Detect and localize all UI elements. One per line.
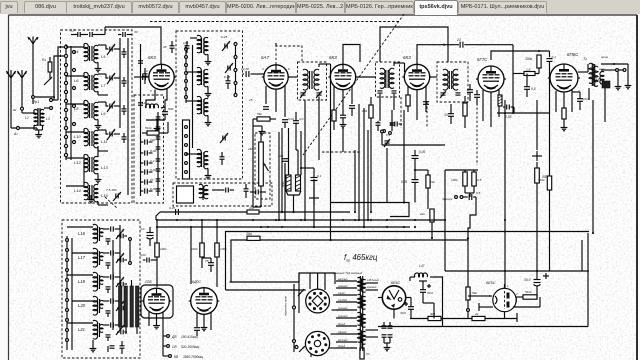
switch contacts box3 right xyxy=(129,238,132,241)
coil L8 xyxy=(84,100,88,117)
capacitor L19 shunt xyxy=(106,286,111,288)
coil L17 small xyxy=(99,253,103,261)
IFT1 trimmer a xyxy=(301,92,306,94)
padder capacitor right y128 xyxy=(156,126,161,128)
resistor 30m on bus xyxy=(247,236,260,240)
svg-text:0,1: 0,1 xyxy=(552,55,557,59)
svg-text:6П6С: 6П6С xyxy=(567,52,579,57)
wire anode 6P6S to T2 xyxy=(578,71,588,73)
IFT2 trimmers xyxy=(378,90,383,92)
coil L16 cathode xyxy=(146,104,159,108)
coil L21 oscillator xyxy=(93,320,98,339)
Tr3 winding right 3 xyxy=(361,314,365,327)
padder capacitor 240 xyxy=(144,139,146,144)
capacitor box2b b xyxy=(244,188,249,190)
wire 6K3-2 top cap run xyxy=(343,45,360,65)
transformer Tr1 core xyxy=(37,108,39,126)
wire L13 bottom xyxy=(97,174,99,178)
riser x505 upper xyxy=(504,100,506,288)
hum coil b xyxy=(296,175,301,191)
tube V2 6A7 converter xyxy=(264,65,288,89)
svg-text:6К3: 6К3 xyxy=(329,55,337,60)
svg-text:150-415кгц: 150-415кгц xyxy=(181,335,198,339)
coil L19 oscillator xyxy=(93,272,98,291)
plus mark 30,0 inset xyxy=(404,303,408,305)
wire y202 mid xyxy=(330,202,390,204)
core L20 xyxy=(201,99,203,114)
wires eye anode xyxy=(516,296,523,298)
wires hum coils xyxy=(288,128,290,175)
capacitor box3 bottom a xyxy=(110,345,115,347)
wires switch loop into inset xyxy=(226,289,306,291)
wire padder second rail xyxy=(157,112,159,196)
resistor 100 on bus y212 xyxy=(247,210,259,214)
terminal DV band xyxy=(167,335,170,338)
page border left xyxy=(8,15,10,360)
core L18 xyxy=(201,38,203,53)
svg-text:А1: А1 xyxy=(13,132,18,136)
wire trimmer row 3 xyxy=(98,101,106,103)
dashed switch line x477 xyxy=(476,103,478,165)
terminal A1 top xyxy=(32,96,35,99)
wire riser x355 xyxy=(354,150,356,212)
tube V9 6E5S socket view xyxy=(382,286,405,309)
wire AVC line right xyxy=(464,44,513,46)
riser x588 outer loop xyxy=(587,233,589,327)
wire antenna W2 down xyxy=(10,86,12,128)
wire pickup feed y170 xyxy=(445,169,478,171)
components below IFT2: capacitor a xyxy=(376,122,381,124)
wire 6A7 anode to IFT1 xyxy=(288,76,297,78)
capacitor L16 shunt xyxy=(106,238,111,240)
capacitor L21 third xyxy=(120,330,122,335)
capacitor box3 bottom b xyxy=(120,345,125,347)
wire 6K3-3 anode right xyxy=(430,76,437,78)
IFT2 secondary xyxy=(389,68,394,88)
resistor 500m supply xyxy=(535,168,540,183)
tab bar xyxy=(0,0,640,15)
coil L11 xyxy=(94,130,98,147)
plus mark inset capacitor xyxy=(427,285,431,287)
resistor Ra antenna xyxy=(49,57,51,62)
trimmer L16 arrow xyxy=(116,229,124,239)
coil L19 a xyxy=(197,67,201,84)
capacitor L19 third xyxy=(120,282,122,287)
core L17 xyxy=(97,251,99,265)
switch gang V1b contact rail upper xyxy=(185,45,187,103)
wire eye grid arrows xyxy=(484,295,492,297)
svg-text:6А7: 6А7 xyxy=(261,55,270,60)
coil L16 small xyxy=(99,229,103,237)
wire L21 tap xyxy=(67,322,93,324)
wire box1 gang riser a xyxy=(119,38,121,128)
band box 1 enclosure xyxy=(61,30,133,203)
capacitor box2b c xyxy=(255,190,257,195)
padder capacitor right y190 xyxy=(156,188,161,190)
wire riser x364 xyxy=(363,108,365,227)
svg-text:L12: L12 xyxy=(74,160,81,165)
capacitor box2b a xyxy=(225,188,227,193)
coil L14 xyxy=(84,182,88,199)
Tr3 winding left 1 xyxy=(358,277,362,290)
wire IFT2 bottom leads xyxy=(379,94,381,121)
wire L19 tap xyxy=(67,274,93,276)
svg-text:15: 15 xyxy=(249,98,253,102)
IF transformer 1 can xyxy=(298,62,327,100)
capacitor mid ground bar xyxy=(309,197,319,199)
svg-text:22к: 22к xyxy=(419,212,425,216)
transformer Tr1 secondary L3 xyxy=(40,109,44,125)
wire L20 tap xyxy=(72,300,93,302)
ground tube V7 xyxy=(156,323,158,326)
switch gang V1b shaft plate xyxy=(183,120,190,179)
capacitor 0,05 chain xyxy=(412,155,419,157)
wire 6A7 top cap xyxy=(275,43,277,46)
capacitor detector a xyxy=(467,89,473,91)
capacitor 6K3-3 cathode xyxy=(423,101,429,103)
resistor 100 on riser x371 xyxy=(369,105,373,118)
svg-text:3950-7500кгц: 3950-7500кгц xyxy=(183,355,203,359)
svg-text:L2: L2 xyxy=(25,116,29,120)
ground tube V8 xyxy=(203,325,205,328)
IFT3 primary xyxy=(443,69,448,90)
wire grid 6K3-1 xyxy=(134,76,149,78)
svg-text:чёрный: чёрный xyxy=(338,331,347,334)
wire riser x319 xyxy=(318,97,320,161)
trimmer L20 arrow xyxy=(116,301,124,311)
wire L21 top xyxy=(186,153,197,155)
padder capacitor right y180 xyxy=(156,178,161,180)
wire L18 bottom xyxy=(207,55,209,60)
oscillator feed riser x330 xyxy=(330,73,332,240)
svg-text:Звукосн.: Звукосн. xyxy=(442,197,453,201)
svg-text:L10: L10 xyxy=(74,134,81,139)
trimmer capacitor box1 row 1 xyxy=(109,47,111,52)
svg-text:голубой: голубой xyxy=(338,299,348,302)
wires under 6G7 xyxy=(482,90,484,121)
wire riser x314 lower xyxy=(313,179,315,227)
svg-text:6К3: 6К3 xyxy=(403,55,411,60)
capacitor L17 series xyxy=(110,250,112,255)
bus wire y227 xyxy=(156,226,410,228)
bus wire y231 outer loop top xyxy=(226,232,590,291)
svg-text:белый: белый xyxy=(338,345,346,348)
capacitor box2 bottom xyxy=(220,156,225,158)
wire L6 top xyxy=(66,75,84,77)
core L10 L11 xyxy=(89,131,91,146)
trimmer capacitor box1 row 3 xyxy=(109,104,111,109)
capacitor 0,5 af xyxy=(524,86,530,88)
svg-text:2: 2 xyxy=(548,89,551,93)
svg-text:2: 2 xyxy=(515,292,518,296)
capacitor 30,0 inset xyxy=(408,306,414,308)
switch gang V1a contact rail xyxy=(65,44,67,160)
resistor 100k lower b xyxy=(215,243,219,257)
svg-text:Rа: Rа xyxy=(42,58,46,62)
wires under 6A7 xyxy=(265,86,267,104)
coil L9 xyxy=(94,102,98,119)
svg-text:Т2: Т2 xyxy=(583,57,587,61)
tube V7 lower left xyxy=(144,288,170,314)
wire riser x368 xyxy=(367,130,369,220)
wires cathode cluster 6K3-1 xyxy=(146,90,155,109)
capacitor detector b xyxy=(474,94,480,96)
wires under 6K3-3 xyxy=(407,86,409,112)
svg-text:45: 45 xyxy=(163,45,167,49)
wire riser x253 xyxy=(252,126,254,207)
coil L20 a xyxy=(197,96,201,113)
svg-text:Л2Б: Л2Б xyxy=(144,280,152,284)
wire eye to loop xyxy=(513,306,540,308)
svg-text:L3: L3 xyxy=(46,117,50,121)
resistor 22k lower right xyxy=(430,209,434,222)
wire box1 interconnect a xyxy=(83,160,85,183)
svg-text:100: 100 xyxy=(249,206,254,210)
svg-text:56к: 56к xyxy=(257,112,262,116)
wire inset left rail xyxy=(293,284,295,352)
switch gang V1c contact rail xyxy=(66,236,68,350)
transformer Tr1 primary L2 xyxy=(34,109,38,125)
capacitor cathode 6K3-1 500 xyxy=(162,111,168,113)
svg-text:L11: L11 xyxy=(101,139,107,144)
coil L10 xyxy=(84,128,88,145)
wire L19 bottom xyxy=(207,87,209,92)
svg-text:22: 22 xyxy=(474,312,479,316)
tube V6 6P6S output xyxy=(550,64,578,92)
coil L21 b xyxy=(204,151,208,168)
wire riser x191 xyxy=(190,227,192,284)
junction bus dots xyxy=(467,237,469,239)
resistor 300 eye rail xyxy=(428,316,441,320)
wire input riser second xyxy=(54,56,66,100)
padder capacitor right y118 xyxy=(156,116,161,118)
resistor 510k grid 6P6S xyxy=(547,176,551,190)
coupling capacitor to 6A7 grid xyxy=(243,73,245,75)
riser x582 outer inner xyxy=(581,240,583,271)
padder capacitor 2,2 xyxy=(144,160,146,165)
plus mark B+ supply xyxy=(532,155,542,157)
wire 6K3-1 anode to box2 xyxy=(174,76,176,78)
wire L47 left riser xyxy=(409,277,411,281)
svg-text:50,0: 50,0 xyxy=(427,291,433,295)
box outline mid right xyxy=(390,203,409,217)
svg-text:0,5: 0,5 xyxy=(477,178,482,182)
svg-text:7,5-180: 7,5-180 xyxy=(106,188,117,192)
padder capacitor right y160 xyxy=(156,158,161,160)
coil L18 a xyxy=(197,35,201,52)
svg-text:50к: 50к xyxy=(472,291,477,295)
capacitor 0,1 below IFT2 xyxy=(394,122,396,127)
svg-text:гром: гром xyxy=(601,55,609,59)
wires under 6K3-2 xyxy=(333,86,335,110)
resistor 100k pickup xyxy=(463,172,467,186)
coil L15 xyxy=(94,184,98,201)
capacitor padder upper extra xyxy=(143,73,148,75)
svg-text:белый: белый xyxy=(338,323,346,326)
wire antenna W3 down xyxy=(21,86,23,107)
svg-text:6-25: 6-25 xyxy=(221,35,227,39)
coil L21 small xyxy=(99,325,103,333)
IFT1 trimmer b xyxy=(317,92,322,94)
capacitor 50,0 inset xyxy=(420,289,426,291)
wire 6K3-3 top cap AVC xyxy=(417,45,459,65)
resistor inset bottom xyxy=(360,348,364,359)
antenna W1 xyxy=(28,37,38,53)
coil L12 xyxy=(84,154,88,171)
svg-text:6К3: 6К3 xyxy=(148,55,156,60)
riser x468 lower xyxy=(467,240,469,287)
capacitor 0,25 chain xyxy=(412,179,419,181)
switch gang V1b right contacts xyxy=(235,42,237,97)
wire eye bottom rail xyxy=(410,318,517,320)
wires to speaker terminals xyxy=(601,69,616,71)
potentiometer volume control xyxy=(259,142,264,186)
wire output jack right down xyxy=(627,64,629,83)
svg-text:L47: L47 xyxy=(419,264,425,268)
coupling capacitor 0,1 xyxy=(549,51,551,57)
tube V8 lower left xyxy=(191,288,218,315)
coil L7 xyxy=(94,74,98,91)
capacitor 45 before box2 xyxy=(170,45,175,47)
contact eye cathode xyxy=(467,300,469,309)
svg-text:0,05: 0,05 xyxy=(419,150,425,154)
svg-text:4,0: 4,0 xyxy=(299,117,304,121)
Tr3 winding left 2 xyxy=(358,294,362,307)
svg-text:1,8: 1,8 xyxy=(526,68,531,72)
horizontal y271 right xyxy=(445,270,589,272)
switch contacts inset rail xyxy=(293,306,296,309)
speaker terminals xyxy=(616,69,619,72)
components below IFT2: capacitor b xyxy=(390,122,395,124)
resistor 510k eye anode xyxy=(523,295,537,299)
hum coil a xyxy=(286,175,291,191)
riser x593 speaker return xyxy=(592,100,594,233)
svg-text:6Е5С: 6Е5С xyxy=(391,281,400,285)
wire Tr1 bottom link xyxy=(36,128,38,130)
capacitor L20 series xyxy=(110,298,112,303)
capacitor mid 240 xyxy=(282,158,288,160)
padder capacitor right y148 xyxy=(156,146,161,148)
svg-text:2,2: 2,2 xyxy=(149,159,155,163)
core L20 xyxy=(97,299,99,313)
wire riser x359 xyxy=(358,104,360,220)
wire lamp down xyxy=(604,88,606,122)
wires socket1 top entries xyxy=(309,273,311,289)
capacitor electrolytic 4,0 lower xyxy=(147,232,154,234)
IFT3 core xyxy=(448,71,450,89)
wires socket1 to Tr3 xyxy=(333,294,336,296)
coil L16 oscillator xyxy=(93,224,98,243)
bus wire y220 xyxy=(156,219,445,221)
wires under tube V7 xyxy=(148,312,150,326)
capacitor 33 xyxy=(448,113,454,115)
coil L47 xyxy=(415,273,428,277)
IF transformer 3 can xyxy=(437,62,468,102)
capacitor mid 0,1 xyxy=(311,177,318,179)
wire padder bus xyxy=(140,44,142,196)
wire riser x296 xyxy=(295,131,297,150)
ground 6K3-2 xyxy=(342,118,344,122)
svg-text:6-25: 6-25 xyxy=(224,75,230,79)
core L8 L9 xyxy=(89,103,91,118)
capacitor L16 series xyxy=(110,226,112,231)
capacitor pickup 0,5 xyxy=(468,194,470,200)
capacitor 0,02 lower xyxy=(146,258,148,263)
svg-text:L5: L5 xyxy=(101,54,106,59)
wire 6G7 top cap to y51 xyxy=(491,51,550,60)
wire L10 top xyxy=(66,131,84,133)
svg-text:6,0: 6,0 xyxy=(70,29,75,33)
capacitor L20 shunt xyxy=(106,310,111,312)
capacitor L20 third xyxy=(120,306,122,311)
antenna W3 xyxy=(18,70,27,86)
socket circle 1 xyxy=(306,289,330,313)
capacitor C2 top xyxy=(89,32,91,37)
svg-text:100: 100 xyxy=(362,109,367,113)
svg-text:23: 23 xyxy=(456,38,461,42)
wire riser x305 xyxy=(304,100,306,220)
svg-text:L19: L19 xyxy=(78,279,86,284)
wire IFT2 out xyxy=(393,63,395,66)
resistor 1,8 horizontal xyxy=(524,72,535,76)
capacitor 23 AVC line xyxy=(459,42,461,48)
transformer T2 primary xyxy=(589,63,594,83)
wire L9 bottom xyxy=(97,120,99,124)
capacitor box1 row 3 b xyxy=(122,108,127,110)
trimmer capacitor osc pad xyxy=(115,194,117,199)
trimmer L17 arrow xyxy=(116,253,124,263)
resistor 22 eye rail xyxy=(472,316,485,320)
transformer T2 core xyxy=(591,64,593,86)
svg-text:6Г7С: 6Г7С xyxy=(477,57,488,62)
capacitor L19 series xyxy=(110,274,112,279)
wire trimmer row 4 xyxy=(98,129,106,131)
core L19 xyxy=(201,70,203,85)
capacitor padder top xyxy=(138,60,143,62)
svg-text:синий: синий xyxy=(338,292,345,295)
svg-text:4,0: 4,0 xyxy=(140,227,145,231)
resistor 22k mid xyxy=(426,175,430,188)
gang dashed diagonal xyxy=(303,14,404,155)
coil L20 small xyxy=(99,301,103,309)
svg-text:8-30: 8-30 xyxy=(150,149,156,153)
switch gang V1b contacts lower xyxy=(185,126,188,129)
capacitor C1 6,0 xyxy=(77,32,79,37)
capacitor L16 third xyxy=(120,234,122,239)
coil L19 b xyxy=(204,69,208,86)
svg-text:8-30: 8-30 xyxy=(150,168,156,172)
wire anode top run left xyxy=(105,27,161,65)
resistor 6K3-3 cathode xyxy=(406,95,410,106)
wires winding bars xyxy=(119,280,121,286)
padder capacitor 8-30 xyxy=(144,169,146,174)
tube V4 6K3 third xyxy=(404,64,429,89)
svg-text:L20: L20 xyxy=(78,303,86,308)
capacitor box1 row 1 b xyxy=(122,51,127,53)
wires under 6P6S xyxy=(555,91,557,112)
trimmer capacitor box1 row 2 xyxy=(109,76,111,81)
resistor 300k vertical xyxy=(537,55,541,68)
capacitor 30,0 electrolytic xyxy=(534,279,541,281)
svg-text:30,0: 30,0 xyxy=(400,311,406,315)
capacitor 75 lower xyxy=(208,262,214,264)
core L21 xyxy=(97,323,99,337)
svg-text:510к: 510к xyxy=(525,290,532,294)
wire riser x282 xyxy=(281,128,283,212)
ground box3 xyxy=(92,340,94,346)
coil L6 xyxy=(84,72,88,89)
IFT3 secondary xyxy=(453,69,458,90)
